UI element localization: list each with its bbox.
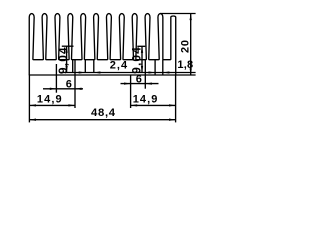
dimension 14,9 right line [131,104,176,106]
svg-text:14,9: 14,9 [133,93,159,105]
svg-text:9,04: 9,04 [130,46,144,74]
extension lines dim 1,8 fin11 walls [154,60,156,75]
dimension 6 left line [43,88,83,90]
wire top extension line from fin 11 to dim 20 [160,13,196,15]
dimension 48,4 line [29,119,175,121]
arrowheads 9,04 left [65,46,67,53]
arrowheads 14,9 right [131,104,138,106]
arrowheads 20 [190,14,192,21]
dimension 9,04 left line [66,46,68,72]
arrowheads 48,4 [29,119,36,121]
svg-text:48,4: 48,4 [91,107,116,119]
dimension 9,04 left tick [62,45,74,47]
dimension 9,04 right tick [137,45,145,47]
svg-text:9,04: 9,04 [56,46,70,74]
arrowheads 9,04 right [141,46,143,53]
arrowheads 6 left [50,88,57,90]
svg-text:1,8: 1,8 [177,59,193,71]
extension line 6L left [55,64,57,93]
arrowheads 14,9 left [29,104,36,106]
arrowheads 1,8 [149,71,156,73]
svg-text:14,9: 14,9 [37,94,63,106]
arrowheads 2,4 [79,71,86,73]
extension line shared 6R/14,9R [130,75,132,108]
arrowheads 6 right [124,82,131,84]
svg-text:2,4: 2,4 [110,60,128,72]
wire common dimension line y=72.5 [60,72,195,74]
wire body bottom line extended right [29,74,196,76]
extension line 6R right (fin10 left wall down) [144,60,146,89]
svg-text:6: 6 [66,78,72,90]
dimension 20 line [190,14,192,76]
extension line 48,4 left [28,75,30,122]
extension line 48,4 right [175,75,177,122]
dimension 14,9 left line [29,104,75,106]
dimension 6 right line [121,83,159,85]
heatsink body outline with 12 fins [29,14,175,75]
svg-text:20: 20 [179,39,191,53]
extension line shared 6L/14,9L [74,60,76,108]
extension line fin3 right wall down [72,60,74,73]
svg-text:6: 6 [136,74,142,86]
extension lines dim 2,4 gap walls [84,60,86,73]
dimension 9,04 right line [141,46,143,72]
